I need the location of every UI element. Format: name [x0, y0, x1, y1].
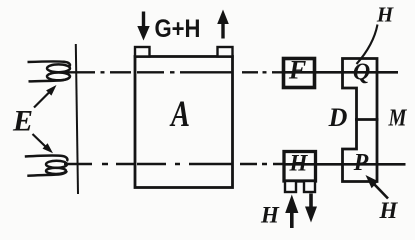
box H (bottom unit)	[284, 152, 316, 182]
svg-text:H: H	[260, 203, 280, 228]
svg-text:F: F	[288, 56, 306, 85]
svg-text:H: H	[289, 151, 309, 176]
arrow pointing to P	[366, 175, 389, 199]
down arrow below box H	[305, 194, 317, 223]
svg-text:E: E	[12, 105, 33, 138]
coupling divider D	[355, 118, 379, 121]
arrow from E to bottom coil	[33, 134, 54, 153]
tab on box A top-left	[135, 47, 150, 57]
winding E top coil	[28, 61, 71, 81]
top shaft centerline	[64, 71, 398, 73]
svg-text:M: M	[388, 106, 408, 132]
svg-text:P: P	[353, 150, 369, 176]
svg-text:D: D	[328, 103, 348, 132]
svg-text:Q: Q	[353, 60, 370, 86]
svg-text:A: A	[169, 94, 190, 135]
foot right of box H	[304, 181, 315, 192]
up arrow below box H	[285, 195, 298, 229]
svg-text:H: H	[376, 3, 394, 27]
down arrow above box A	[137, 12, 149, 41]
support line (frame)	[76, 44, 78, 194]
svg-text:H: H	[379, 198, 399, 223]
box F	[284, 59, 315, 88]
box A (machine body)	[135, 57, 233, 188]
svg-text:G+H: G+H	[155, 15, 201, 43]
winding E bottom coil	[25, 156, 68, 176]
bottom shaft centerline	[64, 163, 406, 166]
up arrow above box A	[217, 10, 229, 39]
pointer line from H to Q	[357, 25, 378, 65]
Q-P coupling assembly outline	[343, 59, 378, 182]
arrow from E to top coil	[34, 85, 57, 108]
tab on box A top-right	[218, 47, 233, 57]
foot left of box H	[285, 181, 296, 192]
